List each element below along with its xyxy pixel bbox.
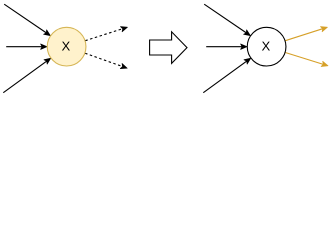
- orange output arrow down-right from right node: [285, 52, 328, 66]
- orange output arrow up-right from right node: [285, 27, 327, 41]
- input arrow middle-left to right node: [206, 44, 247, 49]
- right node circle X (white): [247, 27, 286, 66]
- input arrow middle-left to left node: [6, 44, 47, 49]
- dashed output arrow up-right from left node: [85, 27, 127, 41]
- left node circle X (yellow): [47, 27, 86, 66]
- dashed output arrow down-right from left node: [85, 53, 127, 68]
- input arrow top-left to left node: [4, 4, 50, 35]
- input arrow top-left to right node: [204, 4, 250, 35]
- big hollow transform arrow: [150, 32, 187, 64]
- input arrow bottom-left to left node: [3, 58, 50, 93]
- input arrow bottom-left to right node: [203, 58, 250, 93]
